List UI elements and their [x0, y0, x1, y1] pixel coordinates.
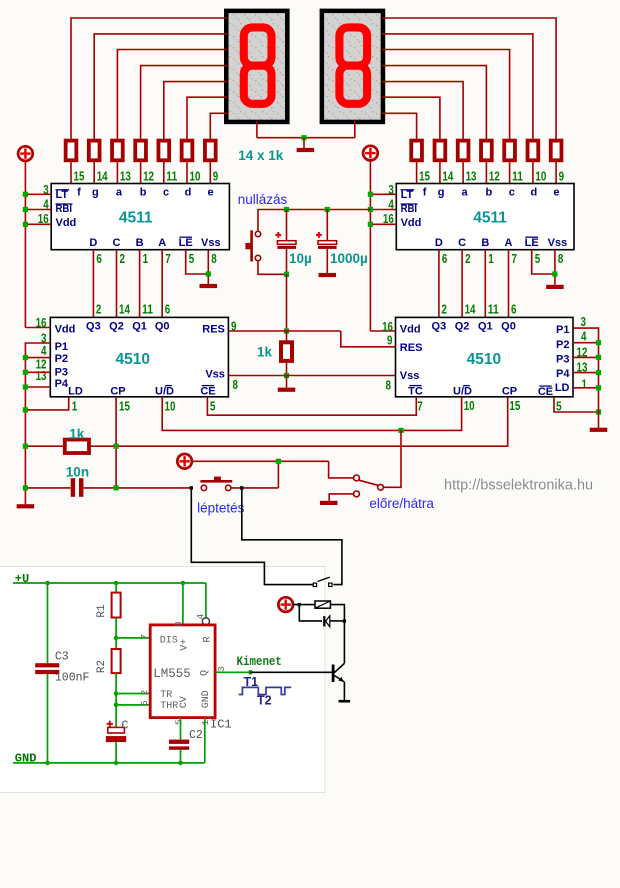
wire pin 5 to C2 — [180, 718, 182, 740]
svg-text:12: 12 — [143, 168, 154, 183]
svg-text:15: 15 — [419, 168, 430, 183]
step pushbutton S2 — [201, 485, 206, 490]
junctions on left rail — [23, 192, 28, 197]
wire pin 1 to GND rail — [204, 718, 206, 763]
svg-text:8: 8 — [173, 621, 184, 627]
svg-text:C: C — [122, 719, 129, 732]
ground for right 4511 Vss — [546, 285, 564, 289]
svg-text:A: A — [158, 237, 166, 249]
svg-text:15: 15 — [74, 168, 85, 183]
svg-text:7: 7 — [512, 251, 517, 266]
svg-text:6: 6 — [511, 302, 516, 317]
wire CE right 4510 to ground rail — [554, 397, 599, 412]
oscillator white panel — [0, 567, 325, 793]
svg-text:P3: P3 — [55, 366, 68, 378]
svg-text:Q1: Q1 — [132, 321, 147, 333]
svg-text:e: e — [553, 186, 559, 198]
svg-text:C: C — [113, 237, 121, 249]
ground for display common — [297, 148, 315, 152]
supply symbol +V at relay — [278, 597, 293, 612]
svg-text:B: B — [136, 237, 144, 249]
svg-text:Vdd: Vdd — [56, 217, 77, 229]
svg-text:TR: TR — [160, 690, 172, 701]
svg-text:T2: T2 — [257, 694, 272, 708]
svg-text:5: 5 — [189, 251, 194, 266]
svg-text:1: 1 — [72, 399, 77, 414]
svg-text:14: 14 — [442, 168, 454, 183]
svg-text:P1: P1 — [55, 341, 68, 353]
svg-text:LD: LD — [68, 386, 83, 398]
svg-text:9: 9 — [559, 168, 564, 183]
wire 10u to RES net — [286, 274, 288, 331]
resistor R2 — [115, 638, 117, 649]
junction Vss net — [284, 373, 289, 378]
wires LT RBI Vdd of left 4511 to rail — [25, 193, 51, 195]
reset pushbutton S1 — [255, 231, 260, 236]
ground of left rail — [17, 504, 35, 508]
svg-text:P3: P3 — [556, 354, 569, 366]
svg-text:8: 8 — [233, 377, 238, 392]
svg-text:B: B — [481, 237, 489, 249]
wire +V rail to pin 8 — [182, 583, 184, 625]
junctions on right rail — [368, 192, 373, 197]
wire supply to relay K1 — [293, 604, 315, 606]
svg-text:CP: CP — [502, 386, 517, 398]
svg-text:5: 5 — [535, 251, 540, 266]
wire button bottom to cap — [258, 261, 287, 275]
wires P2 P3 P4 of left 4510 to rail — [25, 357, 50, 359]
wire CP left 4510 down — [115, 397, 117, 488]
svg-text:13: 13 — [466, 168, 477, 183]
svg-text:Q0: Q0 — [501, 321, 516, 333]
svg-text:3: 3 — [216, 666, 227, 672]
svg-text:13: 13 — [36, 368, 47, 383]
wires LT RBI Vdd of right 4511 to rail — [370, 193, 396, 195]
resistor R16 1k (clock pulldown) — [65, 440, 89, 453]
svg-text:1k: 1k — [69, 426, 85, 441]
svg-text:Q0: Q0 — [155, 321, 170, 333]
wire supply to switch — [192, 460, 329, 462]
svg-text:14 x 1k: 14 x 1k — [238, 148, 284, 163]
svg-text:C: C — [458, 237, 466, 249]
relay coil K1 — [315, 601, 330, 608]
transistor Q1 NPN — [343, 621, 345, 663]
right +V rail wire — [369, 160, 371, 331]
svg-text:Vss: Vss — [400, 370, 420, 382]
svg-text:9: 9 — [213, 168, 218, 183]
wire CE left 4510 to TC right 4510 — [207, 397, 416, 415]
svg-text:P4: P4 — [55, 378, 69, 390]
svg-text:C3: C3 — [55, 650, 69, 663]
svg-text:Q2: Q2 — [455, 321, 470, 333]
right 4510 preset rail to ground — [573, 328, 599, 428]
svg-text:2: 2 — [96, 302, 101, 317]
wire left rail to left 4510 Vdd pin 16 — [25, 327, 50, 329]
wire +V rail corner to reset pin 4 bubble — [205, 583, 207, 618]
wire right rail to Vdd of right 4510 — [370, 330, 395, 332]
ground for left 4511 Vss — [200, 284, 218, 288]
svg-text:4511: 4511 — [473, 209, 507, 226]
wire to TR pin 2 — [116, 693, 150, 695]
svg-text:TC: TC — [408, 386, 423, 398]
svg-text:GND: GND — [201, 690, 212, 708]
svg-text:D: D — [89, 237, 97, 249]
svg-text:Vss: Vss — [548, 237, 568, 249]
svg-text:a: a — [462, 186, 469, 198]
svg-text:Kimenet: Kimenet — [237, 655, 282, 669]
Vss net wire between 4510s — [228, 375, 395, 377]
svg-text:Q1: Q1 — [478, 321, 493, 333]
svg-text:V+: V+ — [179, 639, 190, 651]
svg-text:7: 7 — [139, 634, 150, 640]
svg-text:LT: LT — [401, 189, 414, 201]
svg-text:4510: 4510 — [116, 351, 150, 368]
junction on display common wire — [301, 135, 306, 140]
wires from DIS1 segment pins to left resistor bank — [71, 18, 227, 141]
svg-text:1: 1 — [582, 376, 587, 391]
svg-text:Vdd: Vdd — [400, 324, 421, 336]
capacitor C4 10n debounce — [25, 487, 70, 489]
svg-text:A: A — [505, 237, 513, 249]
svg-text:8: 8 — [386, 377, 391, 392]
svg-text:c: c — [509, 186, 515, 198]
junction R1/R2/DIS — [114, 636, 119, 641]
junction TR — [114, 691, 119, 696]
wire LD of left 4510 to rail — [25, 397, 68, 410]
wires from DIS2 segment pins to right resistor bank — [382, 18, 556, 141]
svg-text:a: a — [116, 186, 123, 198]
svg-text:P1: P1 — [556, 324, 569, 336]
svg-text:RES: RES — [400, 342, 423, 354]
wire LE to Vss of right 4511 and ground — [532, 250, 555, 274]
resistor R15 1k (RES pulldown) — [286, 331, 288, 340]
right supply symbol +V — [363, 146, 378, 161]
svg-text:LE: LE — [179, 237, 193, 249]
svg-text:RBI: RBI — [56, 203, 73, 215]
left +V rail wire — [24, 161, 26, 328]
svg-text:LD: LD — [555, 382, 570, 394]
left resistor bank R (7 x 1k) — [66, 141, 77, 161]
seven-segment display DIS2 (ones digit) — [322, 11, 383, 122]
svg-text:THR: THR — [160, 701, 178, 712]
left supply symbol +V — [18, 146, 33, 161]
ground at elore/hatra switch — [320, 501, 338, 505]
selector switch S3 elore/hatra — [354, 475, 360, 481]
svg-text:14: 14 — [97, 168, 109, 183]
svg-text:4: 4 — [581, 328, 587, 343]
capacitor C timing electrolytic — [108, 727, 125, 733]
svg-text:b: b — [140, 186, 147, 198]
svg-text:Q3: Q3 — [86, 321, 101, 333]
svg-text:P2: P2 — [55, 353, 68, 365]
svg-text:1: 1 — [488, 251, 493, 266]
svg-text:előre/hátra: előre/hátra — [369, 496, 434, 511]
svg-text:c: c — [163, 186, 169, 198]
ground below 1k — [278, 388, 296, 392]
op IC U1 4511 BCD to 7-segment decoder (left) — [51, 184, 229, 250]
junction LE/Vss right — [552, 271, 557, 276]
svg-text:Q: Q — [200, 670, 211, 676]
junction RES — [284, 328, 289, 333]
wire switch lower throw to ground — [329, 494, 353, 501]
svg-text:d: d — [185, 186, 192, 198]
svg-text:14: 14 — [465, 302, 477, 317]
svg-text:11: 11 — [512, 168, 523, 183]
svg-text:11: 11 — [166, 168, 177, 183]
svg-text:R: R — [203, 636, 214, 642]
capacitor C2 1000u — [326, 210, 328, 241]
RES net wire to both 4510 RES pins — [228, 330, 340, 332]
svg-text:CP: CP — [110, 386, 125, 398]
svg-text:5: 5 — [173, 719, 184, 725]
flyback diode D1 — [299, 605, 322, 621]
wire to DIS pin 7 — [116, 637, 150, 639]
svg-text:f: f — [77, 186, 81, 198]
svg-text:6: 6 — [442, 251, 447, 266]
+V rail of oscillator — [13, 582, 206, 584]
svg-text:4511: 4511 — [119, 209, 153, 226]
svg-text:1000µ: 1000µ — [330, 251, 368, 266]
svg-text:10µ: 10µ — [289, 251, 312, 266]
wire CP right 4510 down to clock net — [89, 397, 508, 446]
selector switch S4 contacts — [313, 583, 316, 586]
svg-text:9: 9 — [387, 332, 392, 347]
svg-text:9: 9 — [231, 319, 236, 334]
wire U/D left 4510 to U/D right 4510 — [162, 397, 461, 431]
output wire to transistor base — [250, 671, 332, 673]
svg-text:C2: C2 — [189, 729, 203, 742]
svg-text:+U: +U — [15, 572, 29, 586]
wire to THR pin 6 — [116, 704, 150, 706]
GND rail of oscillator — [13, 762, 205, 764]
svg-text:8: 8 — [211, 251, 216, 266]
svg-text:Vss: Vss — [201, 237, 221, 249]
svg-text:Q3: Q3 — [432, 321, 447, 333]
junction dots on +V rail — [45, 581, 50, 586]
svg-text:LM555: LM555 — [153, 667, 191, 681]
svg-text:10n: 10n — [66, 464, 89, 479]
output wire Q pin 3 — [215, 671, 250, 673]
svg-text:RBI: RBI — [401, 203, 418, 215]
svg-text:6: 6 — [165, 302, 170, 317]
wire switch common to U/D net — [384, 430, 401, 487]
manual/auto clock selector wiring (black) — [190, 486, 193, 489]
capacitor C1 10u — [286, 210, 288, 241]
seven-segment display DIS1 (tens digit) — [226, 11, 287, 122]
svg-text:5: 5 — [210, 399, 215, 414]
ground of right rail — [590, 428, 608, 432]
junction caps top — [284, 207, 289, 212]
svg-text:6: 6 — [139, 700, 150, 706]
svg-text:12: 12 — [489, 168, 500, 183]
svg-text:IC1: IC1 — [210, 718, 232, 732]
svg-text:4510: 4510 — [467, 351, 501, 368]
left grounded preset rail — [25, 343, 50, 504]
svg-text:14: 14 — [119, 302, 131, 317]
svg-text:P2: P2 — [556, 339, 569, 351]
svg-text:10: 10 — [190, 168, 201, 183]
square wave symbol — [239, 687, 292, 694]
svg-text:CE: CE — [538, 386, 553, 398]
wire nullazas net top — [258, 210, 370, 232]
IC1 LM555 timer — [150, 625, 215, 718]
svg-text:léptetés: léptetés — [197, 500, 245, 515]
svg-text:U/D: U/D — [453, 386, 472, 398]
svg-text:P4: P4 — [556, 368, 570, 380]
wires 4511 outputs D C B A down to left 4510 inputs — [92, 250, 94, 318]
svg-text:R1: R1 — [96, 604, 108, 618]
svg-text:LE: LE — [525, 237, 539, 249]
junction CP/1k — [114, 444, 119, 449]
svg-text:Vdd: Vdd — [401, 217, 422, 229]
IC U4 4510 BCD up/down counter (right) — [396, 317, 574, 396]
svg-text:4: 4 — [195, 614, 206, 620]
svg-text:Vdd: Vdd — [55, 324, 76, 336]
svg-text:10: 10 — [165, 399, 176, 414]
svg-text:CV: CV — [179, 696, 190, 708]
svg-text:2: 2 — [465, 251, 470, 266]
junction LE/Vss — [206, 271, 211, 276]
svg-text:10: 10 — [464, 398, 475, 413]
junction THR — [114, 703, 119, 708]
capacitor C3 100nF — [47, 583, 49, 663]
reset pin 4 bubble — [202, 618, 209, 625]
svg-text:d: d — [531, 186, 538, 198]
wire LE to Vss of left 4511 and ground — [186, 250, 209, 274]
resistor R1 — [115, 583, 117, 593]
svg-text:11: 11 — [488, 302, 499, 317]
ground for 1000u — [319, 273, 337, 277]
svg-text:CE: CE — [200, 386, 215, 398]
svg-text:2: 2 — [441, 302, 446, 317]
svg-text:Vss: Vss — [205, 368, 225, 380]
svg-text:100nF: 100nF — [55, 671, 90, 684]
svg-text:15: 15 — [119, 399, 130, 414]
svg-text:g: g — [92, 186, 99, 198]
supply symbol +V at leptetes — [177, 454, 192, 469]
svg-text:Q2: Q2 — [109, 321, 124, 333]
svg-text:nullázás: nullázás — [238, 192, 288, 207]
svg-text:RES: RES — [202, 324, 225, 336]
svg-text:7: 7 — [165, 251, 170, 266]
svg-text:2: 2 — [139, 690, 150, 696]
svg-text:2: 2 — [120, 251, 125, 266]
svg-text:D: D — [435, 237, 443, 249]
ground at transistor emitter — [339, 700, 351, 703]
svg-text:13: 13 — [120, 168, 131, 183]
svg-text:http://bsselektronika.hu: http://bsselektronika.hu — [444, 478, 593, 494]
svg-text:3: 3 — [581, 314, 586, 329]
svg-text:1k: 1k — [257, 345, 273, 360]
svg-text:U/D: U/D — [155, 386, 174, 398]
svg-text:g: g — [438, 186, 445, 198]
svg-text:11: 11 — [142, 302, 153, 317]
wire relay to collector node — [330, 605, 344, 621]
svg-text:e: e — [208, 186, 214, 198]
svg-text:15: 15 — [509, 398, 520, 413]
junction button/10u — [284, 272, 289, 277]
common cathode wire from DIS1 and DIS2 to ground — [256, 121, 258, 138]
svg-text:6: 6 — [96, 251, 101, 266]
wires P2 P3 P4 LD of right 4510 to rail — [573, 342, 599, 344]
right resistor bank R (7 x 1k) — [411, 141, 422, 161]
svg-text:LT: LT — [56, 189, 69, 201]
wire button right contact to +V node — [231, 487, 279, 489]
capacitor C2 — [169, 740, 189, 744]
svg-text:R2: R2 — [96, 660, 108, 673]
svg-text:1: 1 — [143, 251, 148, 266]
wires 4511 outputs D C B A down to right 4510 inputs — [438, 250, 440, 318]
svg-text:f: f — [423, 186, 427, 198]
IC U3 4510 BCD up/down counter (left) — [50, 317, 228, 396]
svg-text:7: 7 — [417, 399, 422, 414]
junction CP/10n — [114, 485, 119, 490]
IC U2 4511 BCD to 7-segment decoder (right) — [396, 184, 574, 250]
junction U/D to switch — [398, 428, 403, 433]
svg-text:DIS: DIS — [160, 635, 178, 646]
svg-text:8: 8 — [558, 251, 563, 266]
svg-text:10: 10 — [535, 168, 546, 183]
svg-text:b: b — [486, 186, 493, 198]
